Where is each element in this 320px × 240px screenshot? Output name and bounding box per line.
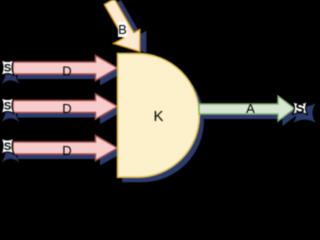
svg-text:S: S (295, 101, 304, 116)
svg-text:D: D (62, 143, 71, 158)
svg-text:K: K (153, 108, 163, 125)
arrow A (199, 96, 295, 121)
arrow D2 (13, 94, 118, 119)
arrow A shadow (204, 101, 300, 126)
arrow D1 (13, 56, 118, 81)
svg-text:S: S (4, 141, 11, 153)
svg-text:S: S (4, 101, 11, 113)
node S2 (1, 97, 14, 114)
svg-text:B: B (118, 22, 127, 37)
block K (118, 54, 200, 178)
svg-text:A: A (246, 101, 255, 116)
svg-text:D: D (62, 64, 71, 79)
arrow D3 shadow (18, 141, 123, 166)
node S4 shadow (293, 103, 315, 123)
node S3 (1, 138, 14, 154)
node S1 (1, 59, 14, 76)
node S2 shadow (1, 100, 19, 122)
svg-text:D: D (62, 101, 71, 116)
arrow D3 (13, 136, 118, 161)
block K shadow (122, 59, 204, 183)
arrow D1 shadow (18, 61, 123, 86)
arrow B shadow (111, 0, 147, 53)
arrow B (104, 0, 140, 52)
node S3 shadow (1, 140, 19, 162)
svg-text:S: S (4, 63, 11, 75)
node S4 (292, 101, 308, 115)
label B (white box) (118, 22, 127, 37)
node S1 shadow (1, 62, 19, 84)
arrow D2 shadow (18, 99, 123, 124)
